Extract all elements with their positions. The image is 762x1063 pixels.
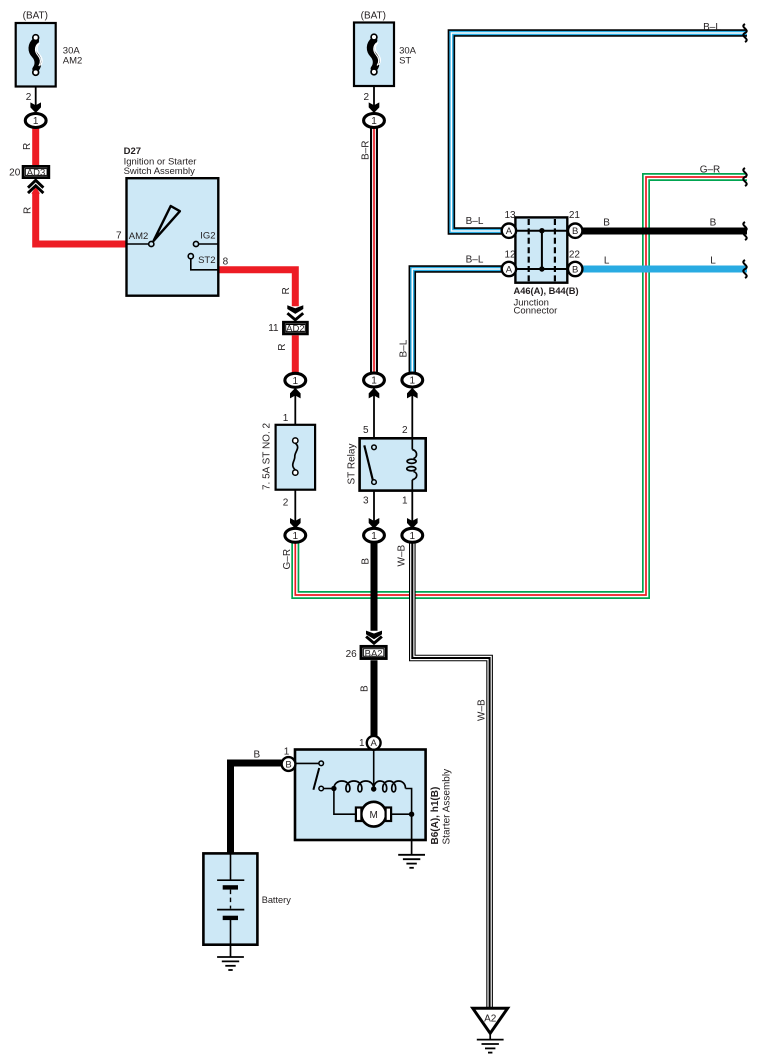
svg-text:B: B (603, 218, 610, 229)
svg-text:M: M (370, 810, 378, 821)
svg-text:R: R (23, 207, 34, 214)
svg-text:R: R (277, 344, 288, 351)
svg-text:8: 8 (223, 256, 229, 267)
svg-text:Switch Assembly: Switch Assembly (124, 166, 196, 177)
svg-text:12: 12 (504, 250, 516, 261)
svg-text:G–R: G–R (282, 549, 293, 570)
svg-text:L: L (604, 256, 610, 267)
svg-text:11: 11 (268, 323, 279, 334)
svg-text:2: 2 (363, 92, 369, 103)
svg-text:B: B (360, 685, 371, 692)
svg-text:21: 21 (569, 210, 581, 221)
svg-text:1: 1 (359, 738, 365, 749)
svg-text:7: 7 (116, 231, 122, 242)
svg-text:ST Relay: ST Relay (347, 444, 358, 485)
svg-text:B–L: B–L (466, 254, 484, 265)
svg-text:B: B (710, 218, 717, 229)
svg-text:AD3: AD3 (27, 167, 45, 178)
svg-text:A2: A2 (484, 1014, 497, 1025)
svg-text:2: 2 (26, 92, 32, 103)
svg-text:ST2: ST2 (198, 255, 215, 266)
svg-text:B: B (572, 226, 578, 237)
svg-text:W–B: W–B (397, 545, 408, 567)
svg-text:B: B (572, 264, 578, 275)
svg-text:B–L: B–L (399, 339, 410, 357)
svg-text:1: 1 (402, 496, 408, 507)
svg-text:Starter Assembly: Starter Assembly (442, 769, 453, 845)
svg-text:3: 3 (363, 496, 369, 507)
svg-text:AD2: AD2 (286, 323, 304, 334)
svg-text:B–L: B–L (466, 216, 484, 227)
svg-text:A: A (371, 738, 378, 749)
svg-text:Battery: Battery (262, 895, 292, 905)
svg-text:22: 22 (569, 250, 581, 261)
svg-text:R: R (281, 287, 292, 294)
svg-text:A: A (506, 264, 513, 275)
svg-text:B: B (285, 759, 291, 770)
svg-text:L: L (710, 256, 716, 267)
svg-text:2: 2 (283, 497, 289, 508)
svg-text:B: B (253, 749, 260, 760)
svg-text:1: 1 (283, 413, 289, 424)
svg-text:W–B: W–B (477, 699, 488, 721)
svg-text:A: A (506, 226, 513, 237)
svg-text:B–L: B–L (703, 22, 721, 33)
svg-text:B6(A), h1(B): B6(A), h1(B) (430, 787, 441, 845)
svg-text:R: R (22, 143, 33, 150)
svg-text:(BAT): (BAT) (23, 11, 48, 22)
svg-text:26: 26 (346, 649, 358, 660)
svg-text:AM2: AM2 (63, 55, 83, 66)
svg-text:ST: ST (399, 55, 411, 66)
svg-text:A46(A), B44(B): A46(A), B44(B) (514, 286, 579, 296)
svg-text:13: 13 (504, 210, 516, 221)
svg-text:Connector: Connector (514, 306, 558, 317)
svg-text:B–R: B–R (360, 141, 371, 160)
svg-text:2: 2 (402, 425, 408, 436)
svg-text:BA2: BA2 (365, 649, 383, 660)
svg-text:B: B (361, 558, 372, 565)
svg-text:(BAT): (BAT) (361, 11, 386, 22)
svg-text:5: 5 (363, 425, 369, 436)
svg-text:7. 5A ST NO. 2: 7. 5A ST NO. 2 (262, 422, 273, 490)
svg-text:AM2: AM2 (129, 231, 149, 242)
svg-text:IG2: IG2 (200, 231, 215, 242)
svg-text:1: 1 (284, 747, 290, 758)
svg-text:20: 20 (9, 168, 21, 179)
svg-text:G–R: G–R (700, 164, 721, 175)
